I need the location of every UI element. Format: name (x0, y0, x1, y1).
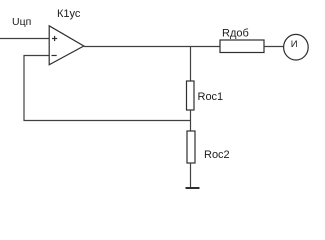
wire feedback horizontal (24, 120, 191, 122)
wire inverting input (24, 55, 50, 57)
resistor Roc2 (187, 131, 195, 163)
svg-text:К1ус: К1ус (57, 8, 81, 20)
svg-text:Uцп: Uцп (12, 16, 31, 28)
wire Roc2 to ground (190, 163, 192, 188)
wire Rdob to meter (264, 46, 284, 48)
op-amp U1 triangle (49, 26, 84, 65)
svg-text:Rос1: Rос1 (198, 91, 224, 103)
svg-text:Rдоб: Rдоб (222, 28, 249, 40)
ground (186, 187, 200, 189)
wire branch down from output node (190, 47, 192, 82)
resistor Roc1 (187, 81, 195, 110)
op-amp plus input sign (52, 38, 57, 40)
wire op-amp output (84, 46, 220, 48)
svg-text:Rос2: Rос2 (204, 149, 230, 161)
meter И circle (284, 34, 309, 60)
wire noninverting input (0, 38, 49, 40)
wire feedback vertical (23, 55, 25, 121)
wire between Roc1 and Roc2 (190, 110, 192, 131)
resistor Rdob (220, 40, 264, 53)
op-amp minus input sign (52, 55, 57, 57)
svg-text:И: И (291, 39, 298, 50)
